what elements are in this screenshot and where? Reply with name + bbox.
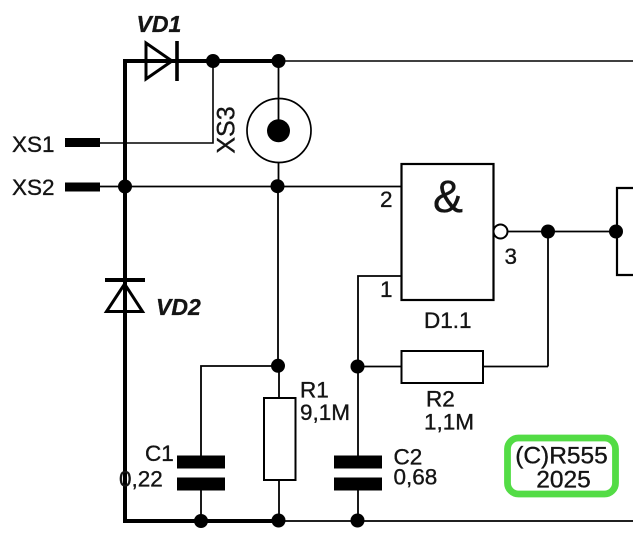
svg-text:VD2: VD2	[156, 294, 201, 320]
wire: column down to C2	[357, 367, 359, 457]
gate AND symbol	[433, 171, 463, 222]
wire: R2 left lead	[357, 366, 402, 368]
wire: gate pin 1 lead	[358, 276, 402, 367]
wire: jack bottom lead	[278, 162, 280, 187]
label R1	[300, 378, 329, 403]
capacitor C2	[334, 456, 382, 491]
svg-text:0,22: 0,22	[119, 467, 163, 492]
op-amp gate D1.2 (partial at right edge)	[617, 188, 633, 275]
node: output junction	[541, 225, 555, 239]
node: R1 bottom junction	[272, 514, 286, 528]
node: R2 left junction	[351, 360, 365, 374]
svg-text:XS1: XS1	[12, 132, 55, 157]
label C2	[394, 445, 423, 470]
wire: XS2 line to gate pin 2	[100, 186, 402, 188]
wire: R2 right lead	[483, 366, 548, 368]
node: jack top junction	[272, 54, 286, 68]
wire: R1 bottom lead	[278, 480, 280, 521]
svg-text:1,1M: 1,1M	[424, 410, 474, 435]
svg-text:2025: 2025	[536, 467, 591, 494]
svg-text:R1: R1	[300, 378, 329, 403]
node: C2 bottom junction	[351, 514, 365, 528]
gate output inversion bubble	[494, 225, 508, 239]
value 9,1M	[300, 400, 350, 425]
pin 1 number	[380, 277, 393, 302]
svg-text:R2: R2	[426, 387, 455, 412]
pin 3 number	[505, 244, 518, 269]
svg-text:2: 2	[380, 187, 393, 212]
wire: bottom thick bus	[123, 519, 280, 523]
wire: C2 bottom lead	[357, 490, 359, 521]
wire: center column from XS2 node down to R1 node	[277, 187, 279, 367]
label VD2	[156, 294, 201, 320]
svg-text:(C)R555: (C)R555	[515, 443, 608, 470]
node: XS2 x jack column junction	[271, 179, 285, 193]
connector XS2 pin bar	[65, 183, 100, 192]
svg-text:XS3: XS3	[213, 106, 241, 153]
wire: feedback drop from output node	[547, 232, 549, 367]
jack XS3	[247, 99, 311, 163]
svg-text:9,1M: 9,1M	[300, 400, 350, 425]
svg-text:0,68: 0,68	[394, 465, 438, 490]
svg-text:VD1: VD1	[137, 11, 182, 37]
wire: jack top lead	[278, 61, 280, 122]
label XS2	[12, 175, 55, 200]
svg-text:C1: C1	[145, 441, 174, 466]
connector XS1 pin bar	[65, 138, 100, 147]
label XS1	[12, 132, 55, 157]
wire: left vertical thick bus	[123, 59, 127, 523]
wire: C1 bottom lead	[200, 490, 202, 521]
label XS3 (rotated)	[213, 106, 241, 153]
wire: bottom thin continuation to right edge	[280, 520, 633, 522]
watermark stamp (C)R555 2025	[508, 438, 616, 494]
diode VD2	[105, 280, 145, 312]
value 0,68	[394, 465, 438, 490]
svg-text:XS2: XS2	[12, 175, 55, 200]
wire: top thin continuation to right edge	[280, 60, 633, 62]
value 1,1M	[424, 410, 474, 435]
wire: XS1 lead to riser	[100, 61, 213, 143]
node: R1 top junction	[271, 359, 285, 373]
diode VD1	[146, 41, 177, 81]
resistor R2	[402, 351, 484, 383]
node: VD1 cathode junction	[206, 54, 220, 68]
label R2	[426, 387, 455, 412]
svg-text:&: &	[433, 171, 463, 222]
value 0,22	[119, 467, 163, 492]
wire: output line to second gate	[507, 231, 617, 233]
svg-text:1: 1	[380, 277, 393, 302]
svg-text:3: 3	[505, 244, 518, 269]
wire: top thick bus from left corner to jack node	[123, 59, 280, 63]
capacitor C1	[177, 456, 225, 491]
node: second gate input junction	[609, 225, 623, 239]
node: XS2 x left bus junction	[118, 180, 132, 194]
svg-text:D1.1: D1.1	[424, 308, 472, 333]
label C1	[145, 441, 174, 466]
label D1.1	[424, 308, 472, 333]
op-amp gate D1.1	[402, 164, 494, 300]
wire: R1 top lead	[278, 366, 280, 398]
resistor R1	[264, 398, 296, 480]
wire: branch to C1	[201, 366, 278, 456]
node: C1 bottom junction	[194, 514, 208, 528]
pin 2 number	[380, 187, 393, 212]
label VD1	[137, 11, 182, 37]
